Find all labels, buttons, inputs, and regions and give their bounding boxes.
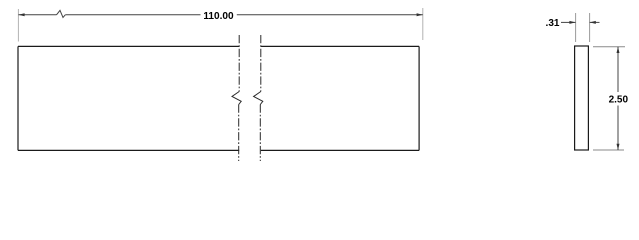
front view left edge [17,46,19,150]
front view top edge right segment [261,45,419,47]
dimension 110.00 arrowhead right [417,13,423,16]
dimension 2.50 line lower segment [617,106,619,151]
dimension 2.50 arrowhead top [617,47,620,53]
dimension 2.50 line upper segment [617,47,619,92]
dimension 110.00 extension line left [17,9,19,42]
dimension .31 arrowhead right [590,21,596,24]
front view top edge left segment [18,45,239,47]
dimension .31 extension line right [589,13,591,42]
dimension 2.50 extension line bottom [593,149,624,151]
svg-text:2.50: 2.50 [609,95,629,106]
front view bottom edge right segment [261,149,419,151]
dimension .31 extension line left [575,13,577,42]
dimension 110.00 line with jog [18,10,422,17]
dimension .31 tail right [590,21,600,23]
break line left [232,35,241,161]
dimension 110.00 arrowhead left [18,13,24,16]
front view outline (broken) [18,46,419,150]
dimension 2.50 extension line top [593,46,625,48]
dimension .31 arrowhead left [569,21,575,24]
svg-text:.31: .31 [546,18,560,29]
side view outline [575,46,589,150]
front view bottom edge left segment [18,149,239,151]
svg-text:110.00: 110.00 [203,11,234,22]
break line right [254,35,263,161]
dimension .31 leader left [561,21,576,23]
dimension 2.50 arrowhead bottom [617,144,620,150]
front view right edge [418,46,420,150]
dimension 110.00 extension line right [422,8,424,40]
